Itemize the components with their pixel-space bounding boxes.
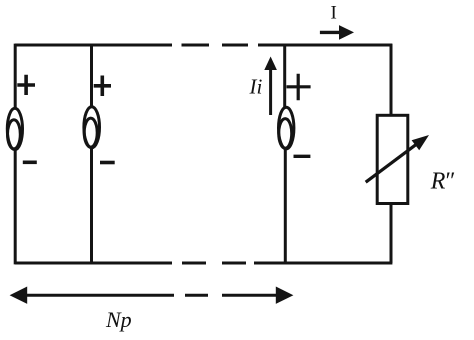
wire left vertical lower	[14, 150, 17, 264]
wire bottom-right horizontal	[254, 262, 392, 265]
svg-text:Np: Np	[105, 307, 132, 332]
label R''	[430, 168, 456, 194]
source Vi	[279, 107, 294, 149]
wire branch Ii upper	[283, 45, 286, 107]
plus label of V1	[17, 75, 35, 95]
wire top dashed segment	[182, 44, 249, 47]
wire bottom-left horizontal	[15, 262, 172, 265]
plus label of V2	[94, 76, 111, 97]
svg-text:I: I	[331, 3, 337, 24]
source V1	[7, 108, 22, 149]
minus label of V1	[23, 161, 37, 165]
current arrow I	[320, 25, 354, 40]
wire branch 2 lower	[90, 147, 93, 263]
source V2	[84, 107, 100, 148]
resistor R'' body	[377, 115, 408, 203]
wire left vertical upper	[14, 44, 17, 108]
wire right vertical upper	[390, 44, 393, 116]
label Np	[105, 307, 132, 332]
dimension arrow Np	[10, 287, 294, 304]
wire right vertical lower	[390, 204, 393, 264]
label Ii	[249, 75, 263, 99]
wire bottom dashed segment	[182, 262, 246, 265]
minus label of Vi	[294, 155, 311, 158]
minus label of V2	[100, 161, 115, 165]
wire branch Ii lower	[284, 148, 287, 263]
label I	[331, 3, 337, 24]
svg-text:Ii: Ii	[249, 75, 263, 99]
wire branch 2 upper	[90, 45, 93, 107]
resistor R'' adjustment arrow	[366, 135, 429, 182]
current arrow Ii	[264, 57, 277, 116]
wire top-left horizontal	[15, 44, 172, 47]
plus label of Vi	[287, 74, 311, 101]
svg-text:R″: R″	[430, 168, 456, 194]
wire top-right horizontal	[258, 44, 392, 47]
